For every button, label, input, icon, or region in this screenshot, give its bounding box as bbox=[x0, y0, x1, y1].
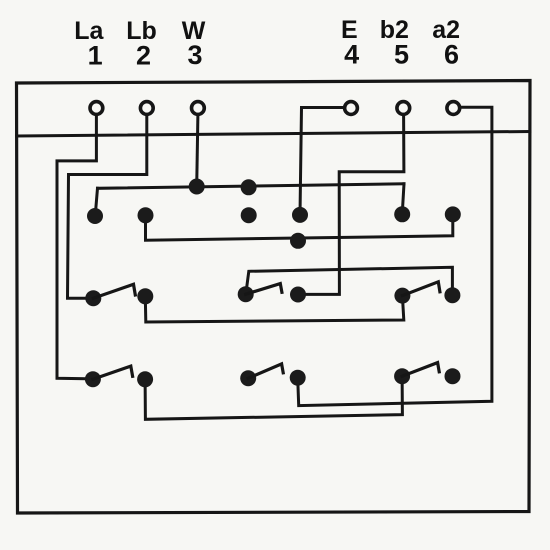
wire bus L1 horizontal bbox=[98, 184, 405, 189]
pin number 6 bbox=[444, 39, 459, 69]
svg-text:2: 2 bbox=[136, 40, 151, 70]
enclosure box bbox=[17, 81, 531, 514]
terminal label b2 bbox=[380, 16, 409, 44]
contact dot row A pos1 bbox=[87, 208, 103, 224]
pin number 3 bbox=[187, 40, 202, 70]
wire row1 transfer link bbox=[145, 296, 404, 322]
wire terminal1-La to switch row2 left contact bbox=[57, 115, 96, 379]
terminal label E bbox=[341, 16, 358, 44]
svg-text:1: 1 bbox=[88, 40, 103, 70]
wire L1 right drop bbox=[402, 184, 404, 215]
switch S1 mid: contact dots and blade bbox=[238, 284, 306, 303]
terminal label Lb bbox=[126, 17, 157, 45]
wire terminal3-W stem to node row bbox=[197, 115, 198, 187]
switch S2 left: contact dots and blade bbox=[85, 366, 153, 387]
terminal label W bbox=[182, 17, 206, 45]
wire L1 left drop bbox=[95, 188, 97, 216]
svg-text:5: 5 bbox=[394, 39, 409, 69]
contact dot row A pos6 bbox=[445, 206, 461, 222]
pin number 1 bbox=[88, 40, 103, 70]
junction dot on L2 bbox=[290, 233, 306, 249]
contact dot row A pos4 E node bbox=[292, 207, 308, 223]
terminal 4 E bbox=[345, 102, 358, 115]
terminal label La bbox=[74, 17, 104, 45]
pin number 4 bbox=[344, 39, 359, 69]
terminal 6 a2 bbox=[447, 102, 460, 115]
contact dot row A pos2 bbox=[138, 207, 154, 223]
wire terminal4-E to contact node bbox=[300, 108, 344, 215]
junction dot under W on L1 bbox=[189, 179, 205, 195]
wire terminal6-a2 to switch row2 mid right contact bbox=[298, 107, 492, 405]
switch S1 left: contact dots and blade bbox=[85, 284, 153, 306]
terminal 1 La bbox=[90, 102, 103, 115]
wire terminal2-Lb to switch row1 left contact bbox=[68, 115, 147, 298]
junction dot on L1 mid bbox=[241, 179, 257, 195]
wire terminal5-b2 to switch row1 mid right contact bbox=[298, 115, 404, 295]
terminal 3 W bbox=[192, 102, 205, 115]
terminal strip divider line bbox=[17, 132, 531, 137]
contact dot row A pos5 bbox=[394, 206, 410, 222]
switch S2 mid: contact dots and blade bbox=[240, 364, 306, 386]
switch S1 right: contact dots and blade bbox=[394, 282, 460, 304]
wire row2 transfer link bbox=[145, 376, 402, 419]
terminal 5 b2 bbox=[397, 102, 410, 115]
svg-text:6: 6 bbox=[444, 39, 459, 69]
terminal label a2 bbox=[432, 16, 460, 44]
svg-text:3: 3 bbox=[187, 40, 202, 70]
contact dot row A pos3 bbox=[241, 207, 257, 223]
terminal 2 Lb bbox=[140, 102, 153, 115]
pin number 2 bbox=[136, 40, 151, 70]
wire bus L2 bbox=[146, 215, 453, 240]
switch S2 right: contact dots and blade bbox=[394, 363, 460, 385]
svg-text:4: 4 bbox=[344, 39, 359, 69]
pin number 5 bbox=[394, 39, 409, 69]
wire bus L3 bbox=[246, 267, 453, 295]
